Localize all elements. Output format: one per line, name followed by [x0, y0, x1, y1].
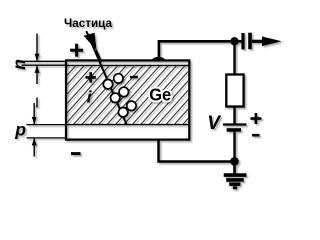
n-layer bottom line [66, 64, 189, 66]
wire resistor to battery [233, 107, 235, 124]
electron-hole pair circle 3 [111, 93, 120, 102]
particle track line [86, 31, 126, 125]
plus inside crystal [86, 72, 96, 82]
n strip lower extension line [22, 64, 67, 66]
minus below crystal [71, 152, 81, 155]
svg-text:n: n [9, 59, 29, 70]
svg-text:p: p [14, 119, 26, 139]
junction dot top [230, 37, 238, 45]
electron-hole pair circle 2 [114, 74, 123, 83]
svg-text:V: V [207, 113, 221, 134]
wire battery to ground node [233, 132, 235, 162]
output arrow shaft [252, 40, 264, 43]
battery plus [250, 113, 261, 124]
solder bump [152, 57, 166, 62]
svg-text:Частица: Частица [64, 16, 112, 30]
output arrowhead [262, 37, 282, 47]
p strip upper extension line [27, 124, 67, 126]
p dimension up arrow [33, 138, 35, 156]
plus above crystal [70, 44, 83, 57]
wire junction to resistor [233, 41, 235, 75]
battery long plate [223, 123, 247, 125]
resistor R [226, 75, 243, 107]
ground bar 2 [226, 178, 244, 182]
p strip lower extension line [27, 137, 67, 139]
electron-hole pair circle 6 [127, 101, 136, 110]
particle track thick segment below arrowhead [96, 50, 102, 63]
crystal i-region hatched body [67, 65, 188, 124]
battery short plate [227, 128, 241, 132]
junction dot bottom [230, 157, 239, 166]
bottom loop wire [159, 140, 235, 162]
battery minus [252, 134, 260, 137]
ground bar 1 [224, 173, 247, 177]
n dimension up arrow [36, 66, 38, 84]
p dimension down arrow [33, 103, 35, 124]
minus inside crystal [130, 76, 138, 78]
electron-hole pair circle 1 [103, 80, 112, 89]
capacitor plate 1 [241, 33, 244, 49]
particle arrowhead [84, 33, 97, 50]
centerline dash [36, 98, 38, 108]
capacitor plate 2 [248, 33, 252, 50]
p-layer top line [66, 124, 189, 126]
top wire [159, 41, 235, 60]
ground bar 3 [229, 182, 240, 185]
n dimension down arrow [36, 34, 38, 61]
electron-hole pair circle 5 [118, 108, 127, 117]
electron-hole pair circle 4 [119, 87, 128, 96]
wire to capacitor [235, 40, 242, 43]
svg-text:Ge: Ge [149, 85, 171, 105]
n strip upper extension line [22, 60, 67, 62]
crystal outline [66, 60, 189, 139]
ground bar 4 [233, 186, 237, 189]
ground stem [233, 162, 236, 174]
